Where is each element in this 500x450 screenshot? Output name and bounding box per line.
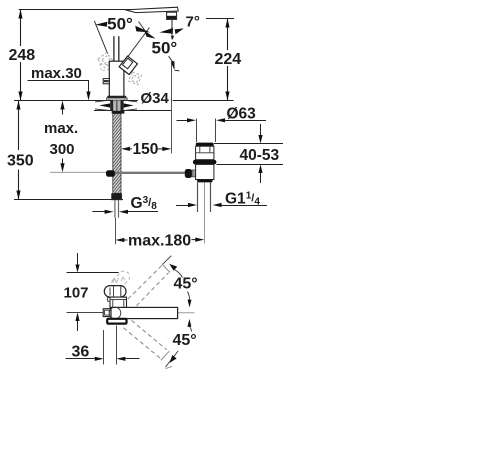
svg-text:150: 150 xyxy=(133,141,159,158)
svg-text:7°: 7° xyxy=(186,14,200,31)
svg-text:max.30: max.30 xyxy=(31,65,82,82)
svg-text:224: 224 xyxy=(215,51,242,68)
svg-text:max.: max. xyxy=(44,120,78,137)
svg-text:50°: 50° xyxy=(152,39,178,58)
svg-text:350: 350 xyxy=(7,153,34,170)
svg-text:45°: 45° xyxy=(173,332,197,349)
svg-text:G11/4: G11/4 xyxy=(225,191,260,208)
svg-text:107: 107 xyxy=(64,285,89,302)
svg-text:Ø34: Ø34 xyxy=(141,90,170,107)
svg-text:45°: 45° xyxy=(174,276,198,293)
svg-text:50°: 50° xyxy=(107,15,133,34)
svg-text:300: 300 xyxy=(50,141,75,158)
svg-text:G3/8: G3/8 xyxy=(131,195,158,212)
svg-text:36: 36 xyxy=(72,344,90,361)
svg-text:40-53: 40-53 xyxy=(240,147,280,164)
svg-text:Ø63: Ø63 xyxy=(227,106,257,123)
svg-text:248: 248 xyxy=(9,47,36,64)
svg-text:max.180: max.180 xyxy=(128,233,191,250)
